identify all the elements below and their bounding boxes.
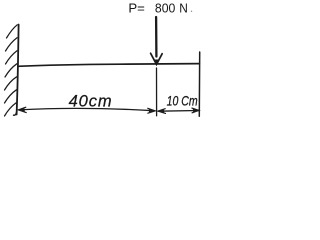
svg-text:P=: P= bbox=[128, 0, 145, 15]
svg-text:800: 800 bbox=[155, 0, 175, 15]
svg-text:N: N bbox=[179, 1, 188, 16]
svg-text:10 Cm: 10 Cm bbox=[167, 93, 198, 109]
svg-text:40cm: 40cm bbox=[69, 93, 113, 111]
